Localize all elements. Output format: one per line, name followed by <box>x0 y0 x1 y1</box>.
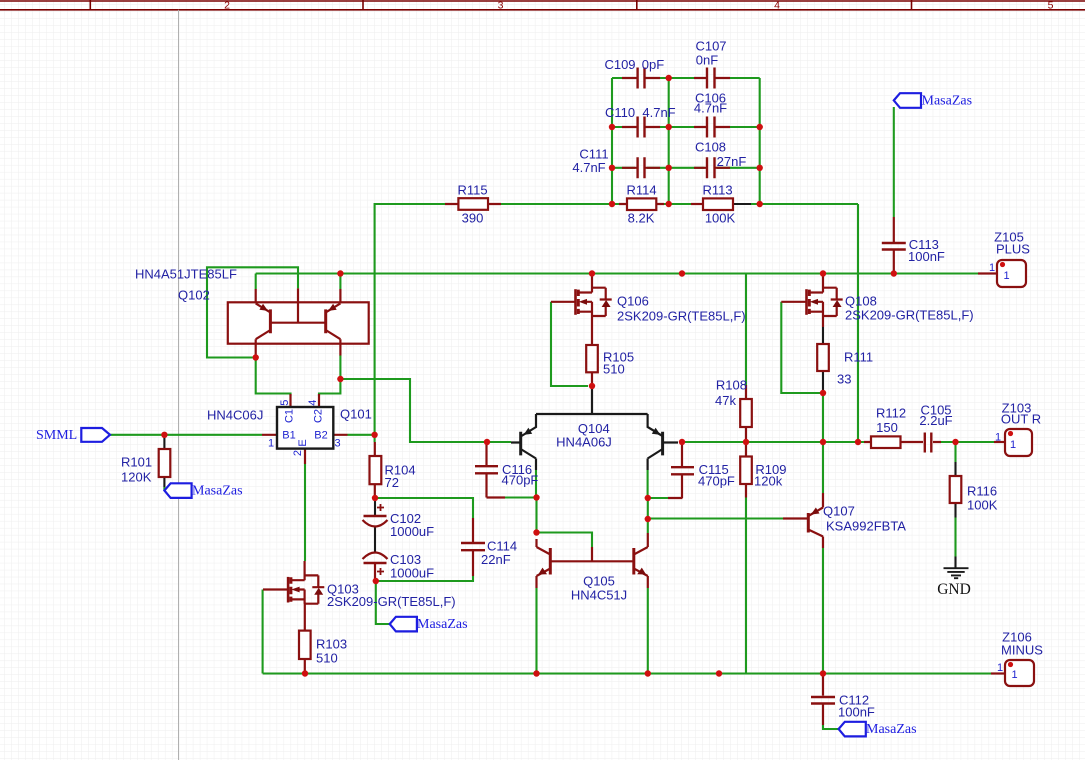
label Z103 <box>1001 401 1041 427</box>
svg-text:510: 510 <box>603 362 625 377</box>
label R108 <box>715 378 747 409</box>
svg-text:2: 2 <box>224 0 230 12</box>
wire Q107 emitter up <box>822 442 824 493</box>
resistor R111 <box>817 327 829 393</box>
pin labels Z106 <box>997 662 1018 681</box>
svg-text:C109: C109 <box>604 57 635 72</box>
resistor R104 <box>370 456 382 484</box>
svg-text:B1: B1 <box>282 430 295 442</box>
pin stubs R114 <box>619 203 664 205</box>
svg-text:MasaZas: MasaZas <box>192 484 243 499</box>
pin stubs C113 <box>893 217 895 274</box>
label Q101 ref <box>340 407 372 422</box>
wire MasaZas stub R101 <box>163 487 165 490</box>
svg-text:27nF: 27nF <box>717 154 747 169</box>
resistor R105 <box>586 345 598 372</box>
capacitor C105 <box>925 433 932 453</box>
wire C115 bottom link <box>648 497 668 499</box>
svg-text:100K: 100K <box>705 211 736 226</box>
svg-text:MasaZas: MasaZas <box>866 722 917 737</box>
label R116 <box>967 484 998 513</box>
wire R116 to ground <box>954 518 956 557</box>
svg-text:C2: C2 <box>313 409 325 423</box>
svg-text:4: 4 <box>307 400 319 406</box>
net flag MasaZas top right <box>894 93 921 108</box>
label R101 <box>121 455 152 485</box>
svg-text:R116: R116 <box>967 484 997 499</box>
wire C116 bottom link <box>505 496 537 498</box>
svg-text:HN4A51JTE85LF: HN4A51JTE85LF <box>135 267 237 282</box>
wire MINUS bottom rail <box>263 672 991 674</box>
wire Q104 right collector <box>647 470 649 498</box>
wire Q106 gate loop <box>551 302 588 386</box>
capacitor C110 <box>638 117 645 138</box>
wire Q101 pinE down to Q103 drain <box>304 464 306 561</box>
svg-text:R112: R112 <box>876 406 906 421</box>
transistor Q108 2SK209 JFET <box>781 274 842 328</box>
svg-text:1: 1 <box>989 262 995 274</box>
svg-text:120k: 120k <box>754 474 783 489</box>
resistor R113 <box>703 198 751 210</box>
svg-text:Q107: Q107 <box>823 504 855 519</box>
wire R116 top <box>954 442 956 462</box>
svg-text:0pF: 0pF <box>642 57 664 72</box>
wire rail to R112 node vertical <box>857 204 859 442</box>
svg-text:2SK209-GR(TE85L,F): 2SK209-GR(TE85L,F) <box>327 594 456 609</box>
svg-text:1: 1 <box>1011 669 1017 681</box>
svg-text:SMML: SMML <box>36 428 77 443</box>
transistor Q102 HN4A51JTE85LF body <box>228 288 369 355</box>
svg-text:KSA992FBTA: KSA992FBTA <box>826 519 906 534</box>
svg-text:C108: C108 <box>695 140 726 155</box>
connector Z105 <box>978 260 1026 287</box>
svg-text:2.2uF: 2.2uF <box>919 413 952 428</box>
svg-text:1: 1 <box>268 437 274 449</box>
resistor R101 <box>159 435 171 487</box>
pin stubs C115 <box>668 442 683 498</box>
label Q108 <box>845 294 974 323</box>
svg-text:C110: C110 <box>605 105 635 120</box>
net flag SMML <box>81 428 110 442</box>
capacitor C106 <box>707 117 715 138</box>
svg-text:2: 2 <box>292 450 304 456</box>
pin labels Q101 <box>268 400 341 456</box>
svg-text:120K: 120K <box>121 470 152 485</box>
transistor Q105 HN4C51J (dual NPN) <box>537 533 648 588</box>
net label GND <box>937 581 971 598</box>
label R112 <box>876 406 906 436</box>
svg-text:HN4C51J: HN4C51J <box>571 588 627 603</box>
label R114 <box>626 183 656 226</box>
wire node to Q107 base <box>648 517 783 519</box>
label Q103 <box>327 582 456 610</box>
resistor R112 <box>871 436 901 448</box>
wire R104 node y498 to C114 <box>375 498 473 518</box>
wire C114 bottom return <box>376 576 473 581</box>
wire cap bank row3 <box>612 167 760 169</box>
svg-text:HN4C06J: HN4C06J <box>207 408 263 423</box>
pin stubs R104 <box>374 442 376 498</box>
wire net SMML input <box>110 434 262 436</box>
pin stubs R115 <box>445 203 501 205</box>
capacitor C103 electrolytic <box>363 553 388 576</box>
label C105 <box>919 403 952 428</box>
capacitor C107 <box>707 68 715 89</box>
svg-text:3: 3 <box>334 437 340 449</box>
pin stubs R103 <box>304 603 306 674</box>
wire Q102 right collector node <box>339 355 341 379</box>
pin stubs cap bank row3 <box>622 167 730 169</box>
pin stubs R108 <box>745 385 747 442</box>
label C107 <box>695 39 726 68</box>
svg-text:47k: 47k <box>715 393 736 408</box>
wire cap bank right column <box>759 78 761 204</box>
svg-text:2SK209-GR(TE85L,F): 2SK209-GR(TE85L,F) <box>617 309 746 324</box>
label Q105 <box>571 574 627 603</box>
svg-text:150: 150 <box>876 420 898 435</box>
svg-text:MasaZas: MasaZas <box>922 93 973 108</box>
wire cap bank left column <box>611 78 613 204</box>
wire cap bank mid column <box>668 78 670 204</box>
pin stubs C114 <box>472 518 474 576</box>
wire Q101 pin3 to R104 node <box>348 435 375 442</box>
svg-text:R111: R111 <box>844 350 873 365</box>
svg-text:R101: R101 <box>121 455 152 470</box>
svg-text:GND: GND <box>937 581 971 598</box>
label Q104 <box>556 421 612 450</box>
svg-text:Q105: Q105 <box>583 574 615 589</box>
label Q102 ref <box>178 288 210 303</box>
capacitor C115 <box>671 467 694 474</box>
svg-text:MasaZas: MasaZas <box>417 617 468 632</box>
wire Q102 right emitter <box>339 274 341 290</box>
net label MasaZas under R101 <box>192 484 243 499</box>
svg-text:100nF: 100nF <box>838 705 875 720</box>
label C113 <box>908 237 945 264</box>
transistor Q106 2SK209 JFET <box>551 274 612 317</box>
label R103 <box>316 637 347 666</box>
wire cap bank row4 rail <box>612 203 858 205</box>
pin stubs Q101 <box>262 394 348 464</box>
capacitor C108 <box>707 157 715 178</box>
resistor R114 <box>627 198 656 210</box>
label R115 <box>457 183 487 226</box>
net flag MasaZas under C112 <box>839 722 866 737</box>
label R104 <box>385 463 416 491</box>
wire Q107 collector down <box>822 548 824 674</box>
pin labels Z103 <box>995 432 1016 452</box>
label C111 <box>572 147 608 176</box>
net flag MasaZas under R101 <box>164 483 191 498</box>
svg-text:C1: C1 <box>284 409 296 423</box>
label C103 <box>390 552 434 581</box>
svg-text:OUT R: OUT R <box>1001 412 1041 427</box>
label C115 <box>698 462 735 488</box>
svg-text:5: 5 <box>1048 0 1054 12</box>
label R109 <box>754 462 786 488</box>
svg-text:1: 1 <box>1010 439 1016 451</box>
resistor R115 <box>458 198 488 210</box>
wire MasaZas to C113 <box>893 107 895 217</box>
svg-text:470pF: 470pF <box>502 473 539 488</box>
capacitor C116 <box>475 466 498 473</box>
svg-text:Q106: Q106 <box>617 294 649 309</box>
svg-text:33: 33 <box>837 372 851 387</box>
label Q101 value <box>207 408 263 423</box>
svg-text:Q101: Q101 <box>340 407 372 422</box>
pin stub R113 left <box>691 203 703 205</box>
pin stubs R109 <box>745 442 747 498</box>
label R105 <box>603 350 634 377</box>
svg-text:4.7nF: 4.7nF <box>642 105 675 120</box>
net label MasaZas under C112 <box>866 722 917 737</box>
svg-text:72: 72 <box>385 475 399 490</box>
wire left column to Q105 base node <box>537 498 593 548</box>
connector Z106 <box>991 660 1034 686</box>
ground symbol GND <box>944 568 969 578</box>
svg-text:MINUS: MINUS <box>1001 643 1043 658</box>
svg-text:470pF: 470pF <box>698 473 735 488</box>
pin stubs cap bank row2 <box>622 126 730 128</box>
net label MasaZas under C103 <box>417 617 468 632</box>
wire Q104 left collector <box>535 470 537 498</box>
capacitor C109 <box>638 68 645 89</box>
wire Q101 pin4 to node <box>319 379 340 396</box>
svg-text:510: 510 <box>316 651 338 666</box>
label C108 <box>695 140 746 169</box>
svg-text:3: 3 <box>498 0 504 12</box>
label C110 <box>605 105 676 120</box>
wire R115 to cap bank <box>501 203 612 205</box>
wire C105 to Z103 <box>941 441 994 443</box>
pin stubs cap bank row1 <box>622 77 730 79</box>
transistor Q103 2SK209 JFET <box>263 561 324 604</box>
resistor R108 <box>740 399 752 427</box>
wire Q105 right emitter down <box>647 588 649 674</box>
resistor R109 <box>740 457 752 485</box>
svg-text:4.7nF: 4.7nF <box>694 101 727 116</box>
svg-text:390: 390 <box>462 211 484 226</box>
svg-text:HN4A06J: HN4A06J <box>556 435 612 450</box>
svg-text:5: 5 <box>279 400 291 406</box>
resistor R116 <box>950 462 962 568</box>
wire cap bank row1 <box>612 77 760 79</box>
transistor Q107 KSA992FBTA (PNP) <box>783 493 823 548</box>
svg-text:R108: R108 <box>716 378 747 393</box>
label Q102 value <box>135 267 237 282</box>
wire feedback R115 to pin3 node <box>375 204 445 435</box>
wire right column down <box>647 498 649 533</box>
wire C112 to MasaZas <box>823 725 839 729</box>
label C114 <box>481 539 517 568</box>
wire Q102 base tie upper <box>207 267 298 357</box>
svg-text:1: 1 <box>997 662 1003 674</box>
svg-text:4: 4 <box>774 0 780 12</box>
pin stubs C112 <box>822 674 824 726</box>
svg-text:100nF: 100nF <box>908 249 945 264</box>
capacitor C102 electrolytic <box>363 498 388 553</box>
pin stubs R105 <box>591 316 593 386</box>
label Q106 <box>617 294 746 324</box>
svg-text:4.7nF: 4.7nF <box>572 160 605 175</box>
label R113 <box>702 183 735 226</box>
wire Q105 left emitter down <box>535 588 537 674</box>
wire Q102 left collector to Q101 pin5 <box>256 358 291 397</box>
svg-text:8.2K: 8.2K <box>628 211 655 226</box>
svg-text:E: E <box>297 439 309 446</box>
net flag MasaZas under C103 <box>390 617 417 632</box>
label Z106 <box>1001 630 1043 658</box>
transistor Q101 HN4C06J box <box>277 407 333 449</box>
pin labels Z105 <box>989 262 1010 282</box>
svg-text:R115: R115 <box>457 183 487 198</box>
label R111 <box>837 350 873 387</box>
svg-text:1: 1 <box>995 432 1001 444</box>
net label SMML <box>36 428 77 443</box>
svg-text:B2: B2 <box>314 430 327 442</box>
svg-text:0nF: 0nF <box>696 53 718 68</box>
svg-text:R103: R103 <box>316 637 347 652</box>
label C106 <box>694 91 727 116</box>
wire Q108 gate loop <box>781 302 823 393</box>
net label MasaZas top right <box>922 93 973 108</box>
svg-text:R114: R114 <box>626 183 656 198</box>
pin stubs C116 <box>487 442 506 498</box>
label Q107 <box>823 504 906 534</box>
wire output node line y442 <box>682 441 864 443</box>
wire PLUS rail <box>256 272 978 274</box>
label Z105 <box>994 230 1030 257</box>
label C116 <box>502 462 539 488</box>
wire R109 bottom to rail <box>745 498 747 674</box>
svg-text:R113: R113 <box>702 183 732 198</box>
pin stub C103 bottom <box>374 564 376 582</box>
wire cap bank row2 <box>612 126 760 128</box>
svg-text:22nF: 22nF <box>481 552 511 567</box>
capacitor C113 <box>882 243 906 250</box>
label C102 <box>390 511 434 539</box>
wire Q103 gate to bottom rail <box>262 590 264 674</box>
svg-text:100K: 100K <box>967 498 998 513</box>
capacitor C111 <box>638 157 645 178</box>
svg-text:C107: C107 <box>695 39 726 54</box>
svg-text:Q102: Q102 <box>178 288 210 303</box>
svg-text:1000uF: 1000uF <box>390 524 434 539</box>
svg-text:1000uF: 1000uF <box>390 566 434 581</box>
wire Q108 source node down <box>822 393 824 442</box>
wire PLUS rail to R108 <box>745 274 747 386</box>
capacitor C114 <box>461 543 485 550</box>
svg-text:PLUS: PLUS <box>996 242 1030 257</box>
label C112 <box>838 693 875 720</box>
svg-text:Q108: Q108 <box>845 294 877 309</box>
wire node C2 to Q104 left base <box>340 379 511 442</box>
connector Z103 <box>994 429 1032 456</box>
transistor Q104 HN4A06J (black dual PNP) <box>511 386 678 470</box>
svg-text:2SK209-GR(TE85L,F): 2SK209-GR(TE85L,F) <box>845 308 974 323</box>
wire C103 bottom to MasaZas <box>376 581 390 624</box>
svg-text:1: 1 <box>1003 270 1009 282</box>
capacitor C112 <box>811 697 835 704</box>
pin stubs R112 C105 <box>864 441 941 443</box>
label C109 <box>604 57 664 72</box>
wire Q102 left emitter <box>255 274 257 290</box>
resistor R103 <box>299 631 311 659</box>
